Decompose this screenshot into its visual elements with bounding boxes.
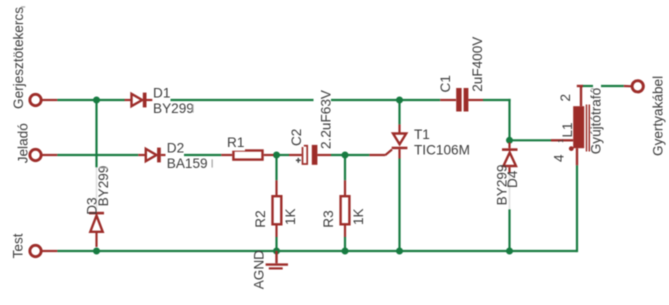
diode D4 — [502, 143, 518, 174]
connector pad Test — [30, 245, 41, 256]
wire: L1 pin2 to spark cable pad (left part) — [582, 85, 593, 87]
svg-text:TIC106M: TIC106M — [414, 143, 470, 158]
wire: D3 covered segment (faint under labels) — [96, 167, 98, 211]
tick D1 — [192, 104, 193, 112]
plus sign C2 — [296, 158, 301, 163]
connector pad Gerjesztotekercs — [30, 94, 41, 105]
tick D3 — [99, 167, 107, 168]
junction: Test rail at D4 — [506, 248, 513, 255]
svg-text:Gyújtótrafó: Gyújtótrafó — [589, 88, 604, 155]
svg-text:D1: D1 — [153, 86, 170, 101]
wire: D4 covered segment (faint under labels) — [509, 173, 511, 209]
svg-text:BY299: BY299 — [153, 101, 194, 116]
svg-text:1: 1 — [556, 139, 565, 143]
tick D2 — [212, 159, 213, 167]
wire: C2 right node down to R3 — [344, 155, 346, 180]
wire: L1 pin2 to spark cable pad (right part) — [601, 85, 624, 87]
wire: R3 bottom to Test rail — [344, 237, 346, 251]
wire: Gerjesztotekercs pad lead (red) — [42, 99, 58, 101]
junction: T1 anode node — [396, 97, 403, 104]
transformer L1 core line 2 — [588, 105, 590, 152]
svg-text:BA159: BA159 — [167, 156, 208, 171]
capacitor C2 — [289, 145, 331, 165]
wire: vertical corner down to D4 node — [508, 99, 510, 140]
tick Gerjesztotekercs — [21, 6, 25, 7]
svg-text:Gyertyakábel: Gyertyakábel — [651, 76, 666, 156]
wire: net Test bottom rail — [57, 250, 577, 252]
svg-text:Jeladó: Jeladó — [15, 123, 30, 163]
svg-text:1K: 1K — [351, 208, 366, 225]
transformer L1 core line 1 — [586, 105, 588, 152]
svg-text:C1: C1 — [438, 75, 453, 92]
wire: R2 bottom to Test rail — [275, 237, 277, 251]
wire: Test pad lead (red) — [42, 250, 58, 252]
junction: C2 left node — [273, 152, 280, 159]
svg-text:2uF400V: 2uF400V — [470, 37, 485, 92]
thyristor T1 — [369, 124, 407, 158]
wire: C2 left node down to R2 — [275, 155, 277, 180]
wire: net Jelado pad to D2 anode — [57, 154, 138, 156]
svg-text:Test: Test — [11, 233, 26, 258]
transformer L1 winding block — [573, 106, 584, 148]
junction: Test rail at R2/AGND — [273, 248, 280, 255]
wire: D4 anode down to Test rail — [508, 209, 510, 251]
L1 pin 1 lead — [551, 139, 573, 141]
connector pad Gyertyakabel — [624, 81, 644, 92]
svg-text:AGND: AGND — [251, 250, 266, 289]
svg-text:2: 2 — [558, 94, 573, 102]
svg-text:1K: 1K — [283, 208, 298, 225]
junction: Test rail at R3 — [342, 248, 349, 255]
svg-text:2.2uF63V: 2.2uF63V — [319, 90, 334, 149]
svg-text:R3: R3 — [321, 210, 336, 227]
wire: net row1 D1 cathode to C1 — [171, 99, 314, 101]
wire: net Test rail up to L1 pin4 — [576, 165, 578, 252]
svg-text:L1: L1 — [560, 122, 575, 137]
white notch over C2 plate — [299, 141, 304, 147]
junction: row1 node A — [93, 97, 100, 104]
svg-text:T1: T1 — [414, 127, 430, 142]
wire: row1 junction down to T1 anode — [398, 100, 400, 124]
resistor R3 — [341, 180, 350, 237]
tick Gyujtotrafo — [591, 88, 594, 89]
wire: net C2 to T1 gate — [331, 154, 369, 156]
svg-text:R2: R2 — [253, 210, 268, 227]
wire: net row1 under 2.2uF63V label to C1 left — [331, 99, 440, 101]
svg-text:C2: C2 — [289, 129, 304, 146]
junction: Test rail at D3 — [93, 248, 100, 255]
wire: net R1 to C2 — [274, 154, 290, 156]
white cover under R1 label — [227, 144, 246, 151]
L1 polarity dot — [569, 146, 574, 151]
wire: net row1 pad to junction A — [57, 99, 124, 101]
junction: D4 cathode node — [506, 137, 513, 144]
diode D2 — [138, 148, 165, 163]
wire: D4 node to L1 pin1 — [510, 139, 552, 141]
svg-text:Gerjesztötekercs: Gerjesztötekercs — [11, 7, 26, 109]
resistor R2 — [273, 180, 282, 237]
wire: T1 cathode down to Test rail — [398, 159, 400, 252]
resistor R1 — [221, 151, 273, 160]
wire: vertical junction A down to D3 — [95, 100, 97, 167]
wire: Jelado pad lead (red) — [42, 154, 58, 156]
diode D1 — [125, 93, 153, 108]
svg-text:D2: D2 — [167, 141, 184, 156]
svg-text:4: 4 — [552, 154, 567, 162]
capacitor C1 — [440, 88, 483, 112]
junction: Test rail at T1 — [396, 248, 403, 255]
L1 pin 4 lead — [576, 148, 578, 165]
wire: net D2 cathode to R1 — [184, 154, 221, 156]
wire: net row1 C1 right to corner — [483, 99, 511, 101]
diode D3 — [89, 212, 104, 247]
connector pad Jelado — [30, 149, 41, 160]
ground symbol AGND — [266, 251, 288, 268]
svg-text:BY299: BY299 — [495, 164, 510, 205]
svg-text:BY299: BY299 — [96, 166, 111, 207]
L1 pin 2 lead — [577, 86, 583, 106]
junction: C2 right node — [342, 152, 349, 159]
svg-text:R1: R1 — [227, 135, 244, 150]
